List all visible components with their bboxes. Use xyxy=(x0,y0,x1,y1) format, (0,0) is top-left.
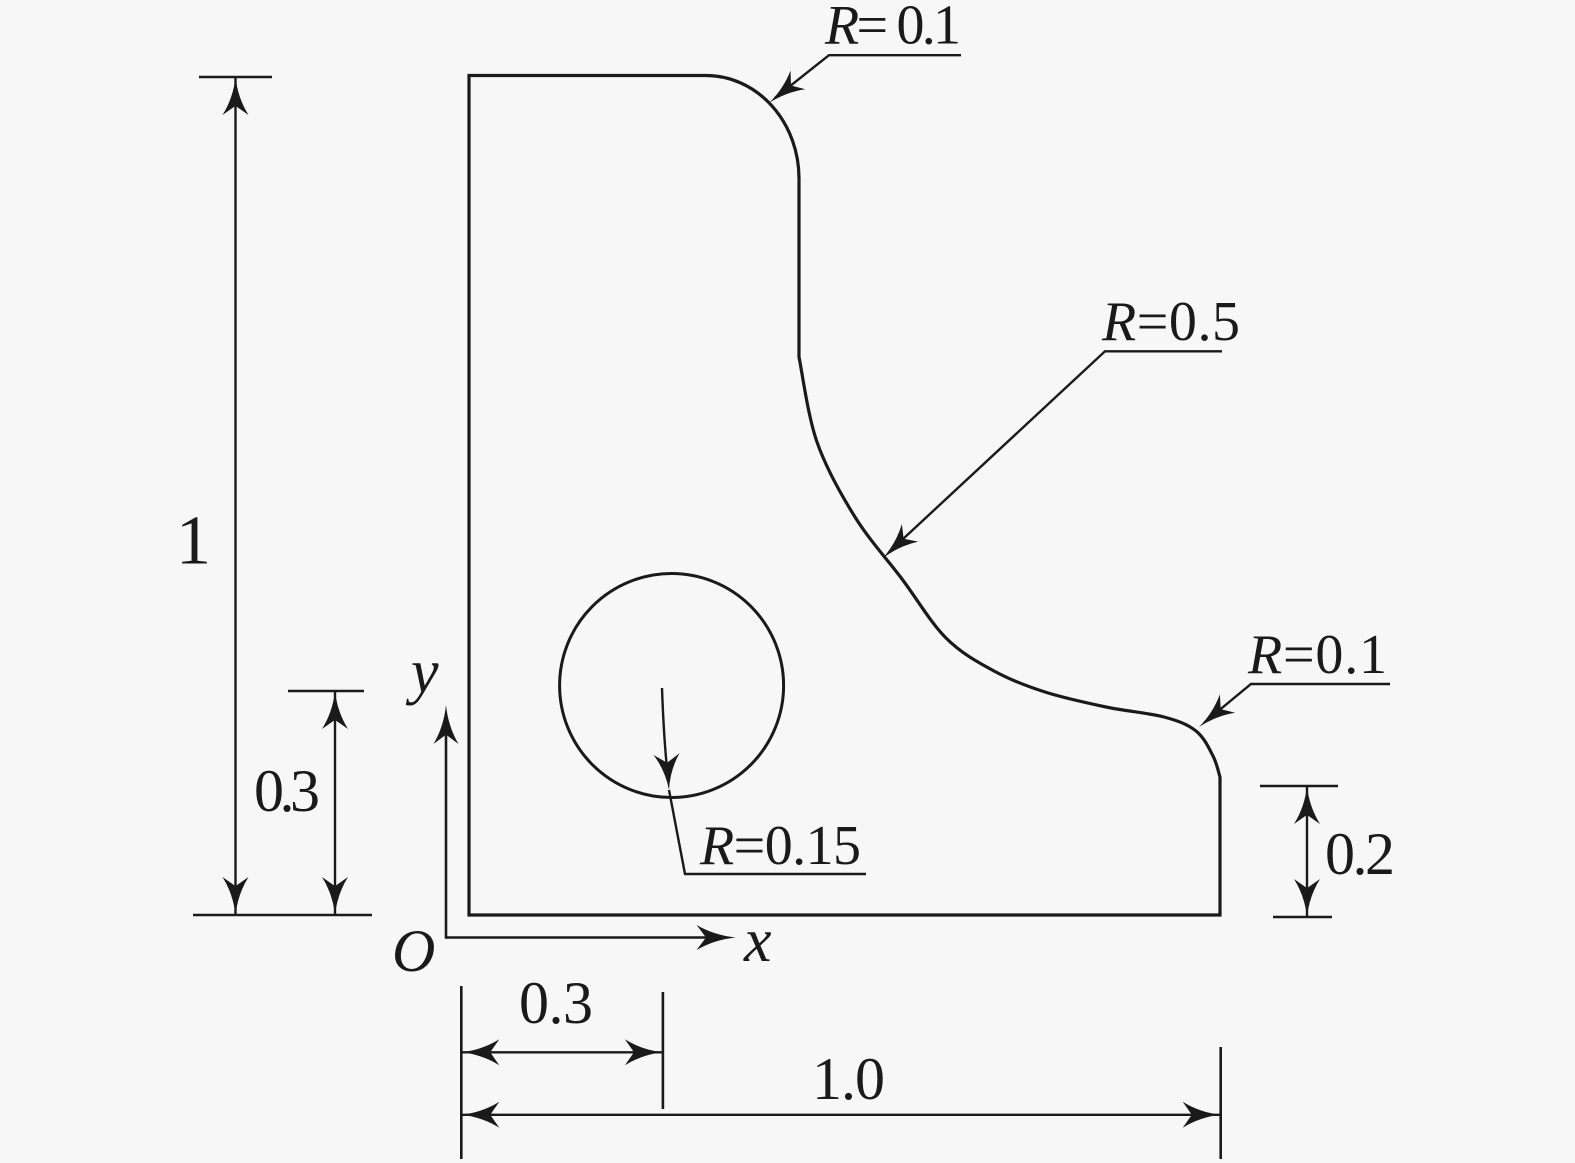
dim 0.3 left: lower arrowhead xyxy=(322,877,348,915)
x axis xyxy=(446,936,706,939)
svg-text:y: y xyxy=(405,638,439,706)
y axis xyxy=(445,735,448,939)
dim 0.3 bottom: right arrowhead xyxy=(625,1039,663,1065)
svg-text:1: 1 xyxy=(176,503,211,580)
leader R=0.5: underline + diagonal xyxy=(889,351,1222,552)
dim 0.3 bottom: left arrowhead xyxy=(461,1039,499,1065)
dim 0.3 left: line xyxy=(334,691,336,915)
svg-text:R=0.15: R=0.15 xyxy=(699,815,861,877)
svg-text:0.3: 0.3 xyxy=(254,758,320,824)
dim 0.2: lower arrowhead xyxy=(1294,879,1320,917)
svg-text:R=0.1: R=0.1 xyxy=(1247,624,1387,686)
leader R=0.1 top: underline + diagonal xyxy=(775,55,961,98)
part outline xyxy=(469,76,1220,916)
leader R=0.15: arrowhead xyxy=(654,753,680,790)
dim 1.0: extension line xyxy=(1219,1047,1222,1159)
leader R=0.15: radius arrow from centre xyxy=(662,688,669,782)
leader R=0.1 right: arrowhead xyxy=(1199,694,1235,727)
svg-text:0.2: 0.2 xyxy=(1325,821,1395,887)
dim 1: ticks xyxy=(199,76,272,79)
svg-text:R= 0.1: R= 0.1 xyxy=(824,0,961,57)
leader R=0.5: arrowhead xyxy=(883,524,918,558)
dim 0.2: ticks xyxy=(1260,785,1338,788)
y axis arrowhead xyxy=(434,705,459,744)
leader R=0.15: tail + underline xyxy=(669,790,866,874)
svg-text:1.0: 1.0 xyxy=(812,1046,885,1112)
dim 1.0: line xyxy=(461,1114,1220,1116)
dim 0.3 bottom: extension lines xyxy=(460,986,463,1159)
svg-text:0.3: 0.3 xyxy=(519,970,593,1036)
x axis arrowhead xyxy=(697,925,736,950)
dim 1: lower arrowhead xyxy=(223,877,249,915)
svg-text:x: x xyxy=(743,907,772,975)
dim 1: upper arrowhead xyxy=(223,77,249,115)
dim 0.2: line xyxy=(1306,786,1308,917)
leader R=0.1 top: arrowhead xyxy=(769,71,805,103)
leader R=0.1 right: underline + diagonal xyxy=(1205,684,1390,722)
hole circle R=0.15 xyxy=(560,574,784,798)
dim 0.3 left: upper arrowhead xyxy=(322,691,348,729)
dim 1.0: left arrowhead xyxy=(461,1102,499,1128)
dim 0.3 left: tick xyxy=(288,690,364,693)
dim 1: line xyxy=(234,77,236,915)
dim 1.0: right arrowhead xyxy=(1183,1102,1221,1128)
svg-text:R=0.5: R=0.5 xyxy=(1101,291,1240,353)
dim 0.3 bottom: line xyxy=(461,1051,663,1053)
svg-text:O: O xyxy=(392,918,435,984)
dim 0.2: upper arrowhead xyxy=(1294,786,1320,824)
